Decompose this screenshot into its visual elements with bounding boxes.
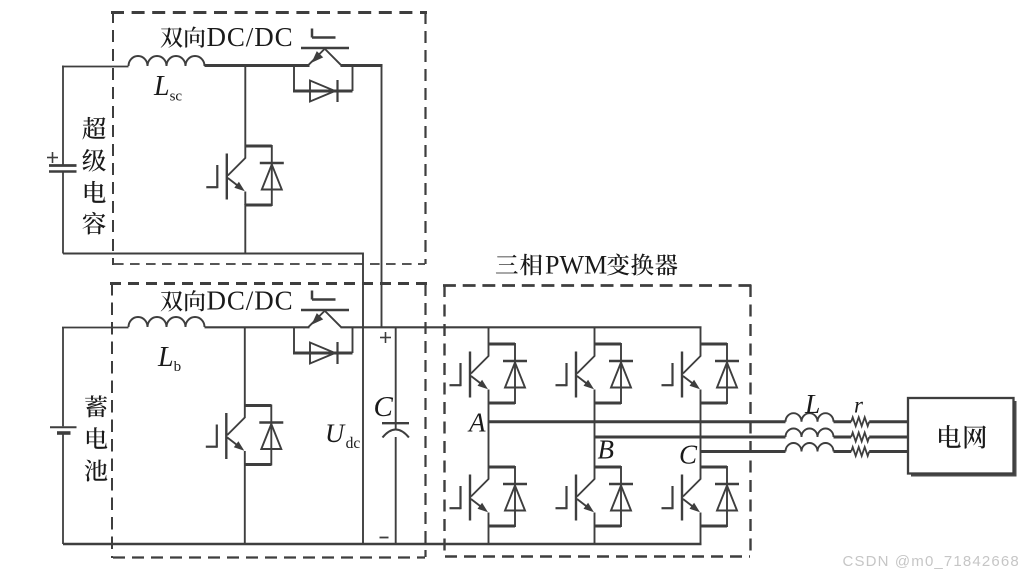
label: supercapacitor (vertical) bbox=[82, 117, 105, 235]
svg-text:PWM: PWM bbox=[545, 251, 607, 280]
resistor r (phase) bbox=[851, 447, 869, 456]
wire: resistor to grid box bbox=[869, 420, 908, 423]
resistor r (phase) bbox=[851, 433, 869, 442]
label: three-phase PWM converter bbox=[496, 251, 678, 280]
capacitor C (DC link) bbox=[382, 327, 409, 544]
plus sign at supercap bbox=[47, 152, 58, 163]
dashed box: battery bidirectional DC/DC converter bbox=[110, 283, 427, 558]
label: power grid bbox=[939, 425, 986, 449]
box: power grid bbox=[908, 398, 1014, 474]
label: battery (vertical) bbox=[85, 395, 108, 481]
svg-text:CSDN @m0_71842668: CSDN @m0_71842668 bbox=[843, 553, 1020, 570]
svg-text:A: A bbox=[467, 408, 486, 438]
wire: coil to resistor bbox=[834, 420, 852, 423]
IGBT Q6 (leg A bottom) bbox=[450, 466, 516, 527]
wire: resistor to grid box bbox=[869, 450, 908, 453]
label: bidirectional DC/DC (top) bbox=[161, 22, 294, 52]
wire: phase A line to grid bbox=[489, 420, 786, 423]
wire: battery top to inductor bbox=[62, 327, 129, 329]
IGBT Q1 (top box upper switch) (horizontal) bbox=[301, 29, 349, 66]
inductor L (phase filter) bbox=[786, 443, 834, 451]
diode antiparallel with IGBT Q4 (bottom box lower switch) bbox=[259, 423, 283, 450]
diode antiparallel with IGBT Q3 (bottom box upper switch) bbox=[293, 328, 353, 365]
wire: top converter output down to DC bus bbox=[381, 66, 383, 328]
inductor L (phase filter) bbox=[786, 429, 834, 438]
IGBT Q5 (leg A top) bbox=[450, 343, 516, 404]
wire: resistor to grid box bbox=[869, 436, 908, 439]
grid box shadow bbox=[911, 401, 1017, 477]
svg-text:Lsc: Lsc bbox=[153, 71, 182, 105]
capacitor: supercapacitor symbol bbox=[49, 166, 77, 172]
wire: phase C line to grid bbox=[701, 450, 786, 453]
svg-text:B: B bbox=[598, 435, 615, 465]
wire: top converter bottom rail bbox=[63, 253, 363, 255]
IGBT Q7 (leg B top) bbox=[556, 343, 622, 404]
dashed box: three-phase PWM converter bbox=[443, 285, 752, 557]
diode antiparallel with IGBT Q6 (leg A bottom) bbox=[503, 484, 527, 511]
wire: top converter negative rail down to bottom rail bbox=[362, 253, 364, 545]
dashed box: supercapacitor bidirectional DC/DC converter bbox=[111, 11, 427, 265]
svg-text:DC/DC: DC/DC bbox=[207, 22, 294, 52]
wire: phase C leg vertical segments bbox=[700, 327, 702, 544]
wire: battery left branch vertical bbox=[62, 327, 64, 544]
svg-text:C: C bbox=[374, 391, 394, 423]
resistor r (phase) bbox=[851, 417, 869, 426]
diode antiparallel with IGBT Q8 (leg B bottom) bbox=[609, 484, 633, 511]
svg-text:DC/DC: DC/DC bbox=[207, 286, 294, 316]
diode antiparallel with IGBT Q2 (top box lower switch) bbox=[260, 163, 284, 190]
diode antiparallel with IGBT Q1 (top box upper switch) bbox=[293, 66, 353, 103]
svg-text:Udc: Udc bbox=[325, 418, 360, 452]
wire: supercap left branch vertical bbox=[62, 66, 64, 254]
IGBT Q10 (leg C bottom) bbox=[662, 466, 728, 527]
wire: middle leg (bottom box) bbox=[244, 328, 246, 544]
minus sign at DC bus bbox=[380, 537, 389, 539]
IGBT Q8 (leg B bottom) bbox=[556, 466, 622, 527]
IGBT Q3 (bottom box upper switch) (horizontal) bbox=[301, 291, 349, 328]
IGBT Q4 (bottom box lower switch) bbox=[206, 405, 271, 466]
IGBT Q2 (top box lower switch) bbox=[206, 145, 271, 206]
inductor L (phase filter) bbox=[786, 413, 834, 422]
label: bidirectional DC/DC (bottom) bbox=[161, 286, 294, 316]
inductor Lsc bbox=[129, 56, 205, 66]
wire: thick DC rail from Lsc to output corner bbox=[205, 64, 383, 67]
diode antiparallel with IGBT Q10 (leg C bottom) bbox=[715, 484, 739, 511]
wire: coil to resistor bbox=[834, 436, 852, 439]
wire: phase B leg vertical segments bbox=[594, 327, 596, 544]
svg-text:C: C bbox=[679, 440, 698, 470]
svg-text:L: L bbox=[804, 388, 820, 419]
diode antiparallel with IGBT Q7 (leg B top) bbox=[609, 361, 633, 388]
diode antiparallel with IGBT Q5 (leg A top) bbox=[503, 361, 527, 388]
IGBT Q9 (leg C top) bbox=[662, 343, 728, 404]
battery symbol bbox=[50, 427, 77, 433]
wire: supercap top to inductor bbox=[62, 66, 129, 68]
wire: coil to resistor bbox=[834, 450, 852, 453]
diode antiparallel with IGBT Q9 (leg C top) bbox=[715, 361, 739, 388]
wire: DC bus positive rail (to PWM legs) bbox=[205, 326, 702, 328]
wire: middle leg from rail down (top box) bbox=[244, 66, 246, 254]
wire: common bottom rail bbox=[63, 543, 702, 546]
svg-text:Lb: Lb bbox=[157, 342, 181, 375]
inductor Lb bbox=[129, 317, 205, 327]
wire: phase B line to grid bbox=[595, 436, 786, 439]
wire: phase A leg vertical segments bbox=[488, 327, 490, 544]
svg-text:r: r bbox=[854, 393, 864, 418]
plus sign at DC bus bbox=[380, 332, 391, 343]
